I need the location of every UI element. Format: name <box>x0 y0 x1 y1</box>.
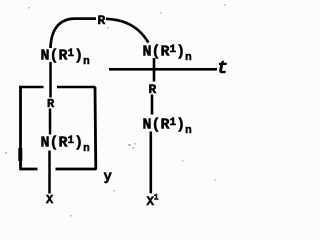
bond vertical right middle <box>151 95 154 115</box>
svg-text:t: t <box>217 59 228 79</box>
bond vertical left upper <box>49 62 52 98</box>
svg-text:R: R <box>98 13 106 28</box>
bond vertical left lower <box>48 151 51 194</box>
scan speck cluster <box>5 4 226 217</box>
bond vertical right upper <box>153 58 156 82</box>
top arc bond left <box>51 19 97 48</box>
repeat bracket box bottom edge <box>20 168 97 171</box>
svg-text:1: 1 <box>154 194 159 203</box>
svg-text:X: X <box>46 193 54 207</box>
bond vertical right lower <box>150 132 153 194</box>
repeat bracket box left edge bold blob <box>18 148 22 161</box>
bond horizontal to L <box>109 68 217 71</box>
repeat bracket box right edge <box>94 87 98 170</box>
top arc bond right <box>106 19 148 43</box>
svg-text:y: y <box>104 169 113 185</box>
repeat bracket box top edge <box>19 86 96 89</box>
repeat bracket box left edge <box>19 86 22 170</box>
bond vertical left middle <box>49 109 52 135</box>
